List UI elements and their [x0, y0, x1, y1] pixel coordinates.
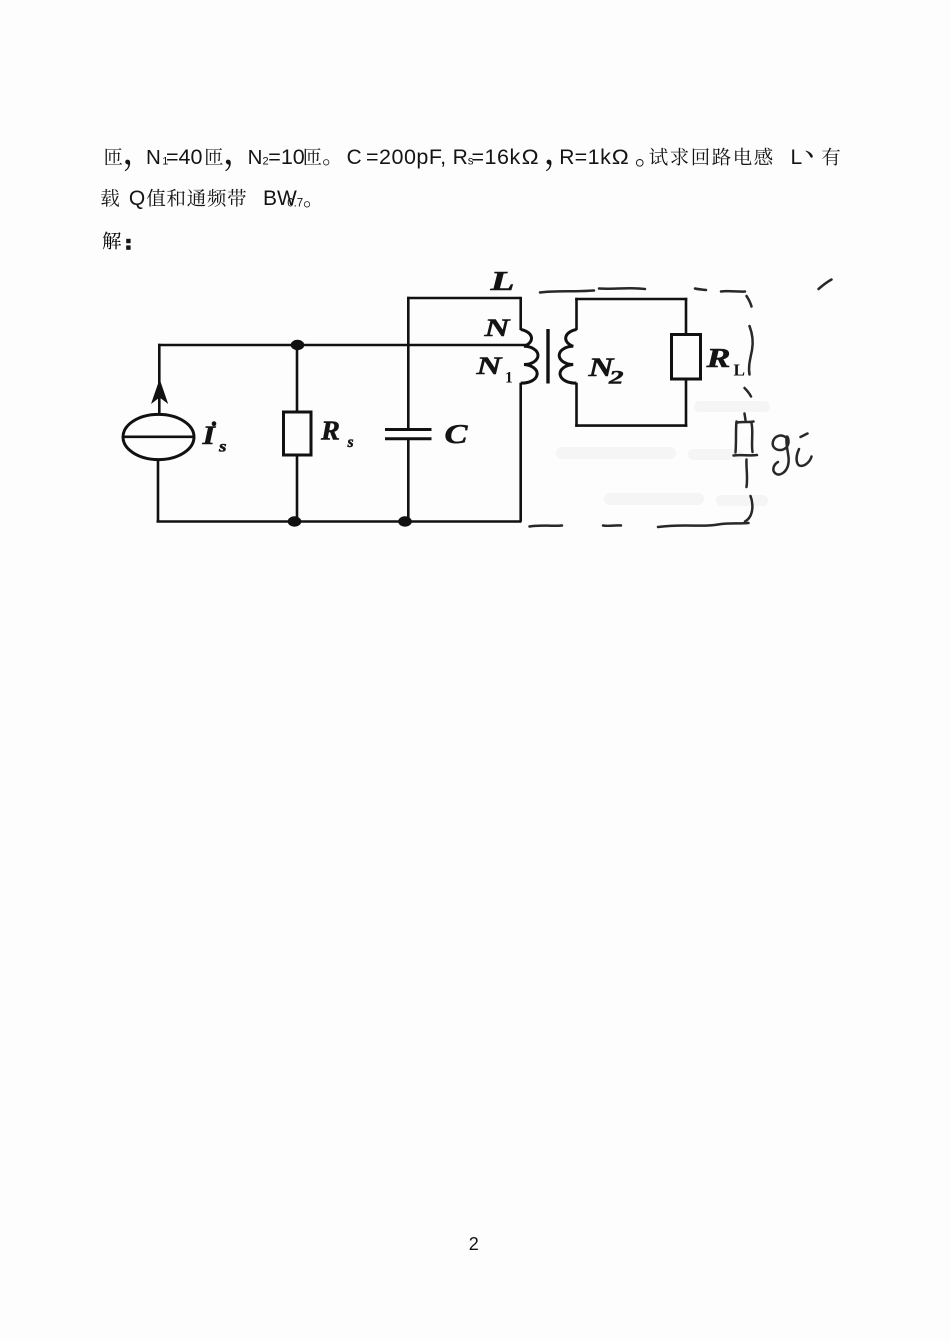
wire secondary loop bottom [575, 424, 687, 427]
svg-text:L: L [734, 361, 746, 380]
wire top rail from source node to inductor tap [158, 344, 527, 347]
svg-text:R: R [559, 146, 574, 169]
svg-text:=10: =10 [268, 145, 305, 169]
svg-text:C: C [347, 146, 362, 169]
svg-text:0.7: 0.7 [287, 198, 303, 210]
svg-text:R: R [453, 146, 468, 169]
svg-text:R: R [320, 416, 340, 446]
label N (tap section) [483, 315, 511, 342]
svg-text:C: C [445, 419, 469, 449]
node junction dot at C bottom [398, 516, 412, 526]
wire top side of inductor L branch [407, 297, 521, 300]
svg-text:N: N [146, 146, 161, 169]
svg-text:s: s [218, 439, 227, 456]
svg-text:Ω: Ω [612, 145, 629, 169]
node junction dot at Rs top [291, 340, 305, 350]
inductor primary coil with tap (3 loops) [521, 330, 538, 384]
wire secondary loop top [575, 298, 687, 301]
svg-text:Ω: Ω [522, 145, 539, 169]
svg-text:N: N [475, 353, 503, 380]
label L [489, 266, 514, 296]
wire secondary right upper [685, 298, 688, 335]
svg-text:=16k: =16k [472, 145, 521, 169]
stray handwritten tick top right [819, 280, 832, 290]
svg-text:L: L [489, 266, 514, 296]
label N2 [587, 353, 624, 389]
secondary coil N2 (3 loops, facing left) [559, 330, 576, 384]
label RL [705, 343, 745, 380]
wire from L box corner down to coil [519, 297, 522, 330]
node junction dot at Rs bottom [288, 516, 302, 526]
wire secondary top left [575, 298, 578, 330]
svg-text:=1k: =1k [575, 145, 612, 169]
dashed boundary box top edge (hand drawn) [540, 288, 745, 292]
wire below primary coil [519, 383, 522, 522]
wire left branch above current source [158, 344, 161, 415]
svg-text:=200pF,: =200pF, [366, 145, 447, 169]
svg-text:N: N [483, 315, 511, 342]
svg-text:L: L [791, 146, 803, 169]
wire secondary right lower [685, 379, 688, 427]
svg-text:=40: =40 [166, 145, 203, 169]
svg-text:1: 1 [505, 370, 513, 387]
svg-text:N: N [248, 146, 263, 169]
wire bottom rail [157, 520, 522, 523]
label C [445, 419, 469, 449]
wire Rs branch lower [296, 455, 299, 522]
wire Rs branch upper [296, 345, 299, 412]
wire secondary below coil [575, 383, 578, 427]
handwritten small resistor box on dashed edge [734, 414, 758, 488]
resistor RL (rectangle) [672, 335, 701, 380]
handwritten annotation gi [773, 434, 812, 475]
label I_s of current source [201, 421, 226, 456]
dashed boundary box right edge (hand drawn) [745, 296, 753, 522]
arrow of current source (pointing up) [151, 379, 168, 404]
capacitor C (two plates) [385, 430, 432, 439]
wire capacitor branch upper [407, 297, 410, 429]
svg-text:s: s [347, 434, 354, 451]
wire capacitor branch lower [407, 439, 410, 522]
transformer core line [546, 329, 549, 384]
svg-text:2: 2 [469, 1234, 479, 1254]
dashed boundary box bottom edge (hand drawn) [530, 523, 749, 527]
svg-text:2: 2 [607, 368, 624, 389]
svg-text:R: R [705, 343, 730, 373]
current source Is (ellipse with chord) [123, 414, 194, 459]
label Rs [320, 416, 354, 452]
resistor Rs (rectangle) [284, 412, 312, 455]
wire below current source [157, 459, 160, 521]
svg-text:Q: Q [129, 187, 145, 210]
label N1 [475, 353, 513, 387]
